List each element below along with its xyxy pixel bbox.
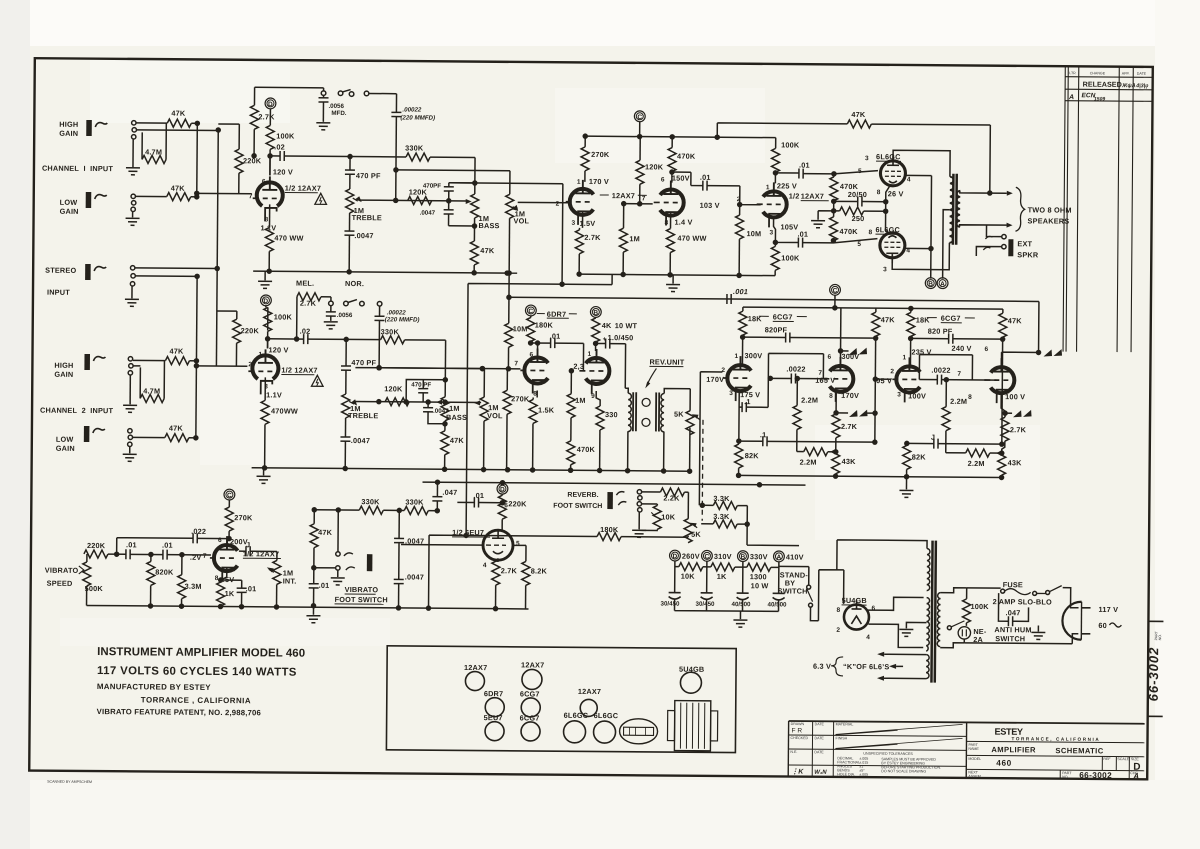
svg-text:6DR7: 6DR7: [547, 310, 567, 319]
capacitor 20/50: [834, 200, 858, 202]
dashed gang line: [701, 420, 704, 521]
svg-text:NAME: NAME: [968, 747, 979, 751]
svg-text:1.0/450: 1.0/450: [608, 333, 634, 342]
svg-text:410V: 410V: [786, 552, 804, 561]
svg-text:10 W: 10 W: [751, 581, 769, 590]
resistor 220K: [83, 553, 85, 555]
svg-text:.01: .01: [162, 541, 173, 550]
wire B+ bus: [585, 121, 776, 137]
svg-text:6CG7: 6CG7: [520, 713, 540, 722]
capacitor .01: [529, 341, 533, 345]
svg-text:2: 2: [737, 196, 741, 203]
resistor 47K: [165, 357, 189, 365]
svg-text:12AX7: 12AX7: [578, 687, 601, 696]
ground: [337, 570, 339, 577]
wire plate lower to OT: [892, 242, 949, 269]
resistor 1.5K cathode A: [533, 390, 537, 399]
switch contacts: [321, 91, 326, 96]
capacitor 470 PF treble: [345, 339, 347, 366]
ground: [131, 286, 133, 298]
svg-text:6: 6: [827, 354, 831, 361]
svg-text:470 WW: 470 WW: [274, 233, 303, 242]
svg-text:1: 1: [587, 351, 591, 358]
wire reverb coils: [625, 388, 691, 471]
jack plug: [607, 492, 613, 509]
svg-text:6: 6: [504, 502, 508, 509]
tube 6L6GC lower: [880, 233, 905, 264]
wire: [269, 109, 271, 125]
border fold tick lower right: [1148, 715, 1163, 717]
resistor 180K: [429, 535, 598, 609]
resistor 2.2M horizontal: [946, 452, 966, 454]
capacitor .047: [998, 593, 1008, 621]
wire secondary right: [940, 588, 966, 648]
svg-text:2.2K: 2.2K: [663, 494, 680, 503]
svg-text:7: 7: [203, 553, 207, 560]
svg-text:2: 2: [248, 361, 252, 368]
svg-text:.0022: .0022: [931, 366, 950, 375]
svg-text:1: 1: [766, 184, 770, 191]
svg-text:(220 MMFD): (220 MMFD): [385, 316, 420, 323]
resistor 470WW cathode: [269, 204, 271, 227]
svg-text:3.3K: 3.3K: [713, 494, 730, 503]
jack EXT SPKR: [976, 225, 1001, 256]
svg-text:2.2M: 2.2M: [950, 397, 967, 406]
svg-text:150V: 150V: [672, 174, 690, 183]
resistor 2.7K: [579, 211, 582, 230]
svg-text:HOLE DIA.: HOLE DIA.: [837, 772, 855, 776]
svg-text:180K: 180K: [535, 320, 554, 329]
phase flag upper 1: [841, 350, 849, 352]
svg-text:CHANNEL I INPUT: CHANNEL I INPUT: [42, 164, 114, 174]
svg-text:1: 1: [902, 354, 906, 361]
svg-text:BASS: BASS: [478, 221, 499, 230]
wire bottom bus PI: [739, 475, 1002, 477]
svg-text:.1: .1: [744, 397, 751, 406]
resistor 10M: [739, 205, 741, 215]
svg-text:225 V: 225 V: [777, 181, 797, 190]
svg-text:1.4 V: 1.4 V: [675, 218, 693, 227]
svg-text:470K: 470K: [577, 445, 596, 454]
resistor 47K: [313, 510, 315, 524]
resistor 47K: [875, 308, 877, 312]
svg-text:1509: 1509: [1094, 96, 1105, 102]
svg-text:220K: 220K: [87, 541, 106, 550]
svg-text:2.7K: 2.7K: [300, 299, 317, 308]
wire vol wiper to 2nd stage: [518, 201, 570, 203]
svg-text:FOOT SWITCH: FOOT SWITCH: [335, 595, 388, 604]
svg-text:EXT: EXT: [1017, 239, 1032, 248]
svg-text:SCANNED BY AMPSCHEM: SCANNED BY AMPSCHEM: [47, 780, 92, 784]
capacitor .01 lower coupling: [773, 218, 798, 242]
svg-text:10 WT: 10 WT: [615, 321, 638, 330]
svg-text:120 V: 120 V: [269, 345, 289, 354]
svg-text:470 PF: 470 PF: [411, 382, 431, 389]
svg-text:UNSPECIFIED TOLERANCES: UNSPECIFIED TOLERANCES: [863, 752, 913, 756]
phase flag lower 2: [1005, 412, 1012, 414]
svg-text:BASS: BASS: [446, 413, 467, 422]
capacitor .1 upper: [739, 392, 742, 441]
resistor 2.7K: [253, 87, 256, 155]
svg-text:5K: 5K: [674, 410, 684, 419]
wire speaker bottom: [960, 225, 1007, 227]
capacitor .01: [313, 568, 315, 584]
svg-text:7: 7: [642, 195, 646, 202]
svg-text:SCHEMATIC: SCHEMATIC: [1055, 746, 1103, 755]
svg-text:5U4GB: 5U4GB: [842, 596, 867, 605]
svg-text:8.2K: 8.2K: [531, 566, 548, 575]
capacitor .0047 lower: [394, 579, 404, 583]
wire grid V3: [740, 186, 761, 205]
svg-text:100K: 100K: [781, 140, 800, 149]
resistor 820K: [150, 554, 152, 561]
node C: [830, 284, 841, 295]
resistor 4.7M: [140, 360, 164, 398]
node C: [525, 305, 536, 316]
svg-text:6: 6: [661, 176, 665, 183]
svg-text:240 V: 240 V: [952, 344, 972, 353]
svg-text:.0047: .0047: [354, 231, 373, 240]
resistor 330K: [344, 337, 348, 341]
svg-text:3: 3: [729, 390, 733, 397]
svg-text:2,3: 2,3: [573, 362, 584, 371]
svg-text:47K: 47K: [1008, 316, 1023, 325]
resistor 82K: [906, 443, 908, 445]
svg-text:LOW: LOW: [56, 435, 74, 444]
svg-text:APP.: APP.: [1122, 72, 1130, 76]
resistor 120K: [385, 398, 409, 406]
svg-text:2.7K: 2.7K: [584, 233, 601, 242]
svg-text:220K: 220K: [508, 499, 527, 508]
svg-text:SPEAKERS: SPEAKERS: [1028, 216, 1070, 225]
svg-text:.047: .047: [1005, 608, 1020, 617]
triode V1 1/2 12AX7: [253, 176, 283, 221]
revision table: [1063, 66, 1153, 352]
svg-text:47K: 47K: [169, 424, 184, 433]
potentiometer 5K: [686, 411, 694, 435]
capacitor .0047 bass: [427, 402, 429, 408]
wire bottom bus vibrato: [87, 605, 529, 608]
svg-text:TREBLE: TREBLE: [352, 213, 382, 222]
speaker brace: [1015, 187, 1024, 231]
jack stereo input: [85, 264, 106, 280]
potentiometer 500K: [86, 554, 88, 562]
node D: [265, 98, 276, 109]
svg-text:INPUT: INPUT: [47, 288, 70, 297]
wire node A to OT tap: [943, 210, 950, 279]
svg-text:9: 9: [591, 393, 595, 400]
capacitor .0047 bass: [448, 201, 450, 210]
svg-text:SWITCH: SWITCH: [778, 586, 808, 595]
triode 6CG7 2A: [892, 357, 920, 402]
svg-text:470 WW: 470 WW: [677, 234, 706, 243]
ground: [132, 139, 134, 167]
svg-text:VOL: VOL: [514, 216, 530, 225]
svg-text:270K: 270K: [591, 150, 610, 159]
svg-text:170 V: 170 V: [589, 177, 609, 186]
wire cap bottoms: [675, 599, 779, 612]
wire grid B: [624, 203, 653, 205]
wire to switch: [1046, 591, 1050, 595]
svg-text:6: 6: [262, 178, 266, 185]
ground: [129, 375, 131, 404]
capacitor 820PF: [743, 336, 786, 338]
wire junction vertical ch2: [196, 276, 197, 437]
svg-text:GAIN: GAIN: [56, 444, 75, 453]
wire treble tap: [355, 400, 481, 403]
svg-text:117 V: 117 V: [1098, 605, 1118, 614]
svg-text:B: B: [740, 554, 745, 561]
svg-text:3.3K: 3.3K: [713, 512, 730, 521]
node D: [669, 550, 680, 561]
resistor 180K: [527, 317, 535, 341]
resistor 2.2M: [945, 380, 947, 407]
triode 1/2 12AX7 vibrato: [210, 536, 238, 581]
capacitor 40/500 second: [773, 593, 785, 600]
svg-text:.00022: .00022: [402, 106, 422, 113]
svg-text:330K: 330K: [405, 497, 424, 506]
wire: [136, 123, 218, 131]
resistor 1300 10W: [743, 566, 747, 568]
resistor 470K lower bias: [833, 211, 835, 217]
svg-text:820PF: 820PF: [765, 325, 788, 334]
svg-text:103 V: 103 V: [700, 201, 720, 210]
svg-text:MATERIAL: MATERIAL: [836, 722, 854, 726]
wire treble tap: [360, 199, 468, 202]
resistor 220K: [235, 311, 237, 366]
svg-text:10M: 10M: [746, 229, 761, 238]
svg-text:MANUFACTURED BY ESTEY: MANUFACTURED BY ESTEY: [97, 682, 212, 692]
ground PI: [905, 477, 907, 490]
svg-text:330K: 330K: [361, 497, 380, 506]
node B: [737, 551, 748, 562]
svg-text:.02: .02: [274, 142, 285, 151]
svg-text:TREBLE: TREBLE: [348, 411, 378, 420]
wire plate: [267, 339, 269, 349]
svg-text:ASSEM.: ASSEM.: [968, 774, 982, 778]
jack ch1 high contacts: [132, 121, 136, 125]
potentiometer 1M BASS: [444, 340, 446, 397]
svg-text:.2V: .2V: [190, 553, 202, 562]
output transformer: [949, 174, 960, 245]
svg-text:LTR: LTR: [1069, 71, 1076, 75]
svg-text:12AX7: 12AX7: [464, 663, 487, 672]
node D: [497, 483, 508, 494]
wire plate upper to OT: [893, 150, 950, 176]
svg-text:MEL.: MEL.: [296, 279, 314, 288]
svg-text:100K: 100K: [274, 312, 293, 321]
capacitor .01 coupling: [672, 172, 703, 186]
capacitor .0047: [340, 437, 350, 441]
svg-text:100V: 100V: [908, 391, 926, 400]
wire vol top: [396, 170, 510, 194]
svg-text:.01: .01: [319, 581, 330, 590]
svg-text:REF: REF: [1103, 757, 1111, 761]
resistor 1M: [570, 371, 572, 394]
svg-text:6CG7: 6CG7: [773, 312, 793, 321]
svg-text:8: 8: [868, 229, 872, 236]
svg-text:3: 3: [865, 155, 869, 162]
svg-text:60: 60: [1098, 621, 1107, 630]
svg-text:8: 8: [877, 189, 881, 196]
svg-text:VIBRATO FEATURE PATENT, NO.: VIBRATO FEATURE PATENT, NO. 2,988,706: [97, 707, 261, 717]
svg-text:40/500: 40/500: [768, 601, 788, 608]
svg-text:D: D: [500, 486, 505, 493]
svg-text:500K: 500K: [85, 584, 104, 593]
border fold tick upper right: [1148, 620, 1163, 622]
capacitor 820 PF: [911, 337, 949, 339]
svg-text:8: 8: [265, 216, 269, 223]
svg-text:SIZE: SIZE: [1131, 757, 1140, 761]
svg-text:7: 7: [514, 360, 518, 367]
svg-text:GAIN: GAIN: [60, 207, 79, 216]
svg-text:.0022: .0022: [786, 364, 805, 373]
svg-text:6: 6: [871, 605, 875, 612]
svg-text:30/450: 30/450: [661, 600, 681, 607]
svg-text:FOOT SWITCH: FOOT SWITCH: [553, 503, 602, 510]
svg-text:INSTRUMENT AMPLIFIER MODEL: INSTRUMENT AMPLIFIER MODEL 460: [97, 646, 305, 660]
svg-text:C: C: [227, 492, 232, 499]
svg-text:8: 8: [968, 394, 972, 401]
wire grid 2A: [875, 378, 891, 380]
wire: [266, 306, 268, 331]
capacitor .01 upper coupling: [775, 172, 798, 174]
svg-text:FUSE: FUSE: [1003, 580, 1023, 589]
resistor 220K: [501, 493, 503, 496]
switch contacts: [329, 301, 334, 306]
svg-text:4.7M: 4.7M: [143, 386, 160, 395]
node A: [937, 278, 948, 289]
svg-text:330K: 330K: [381, 327, 400, 336]
svg-text:330V: 330V: [750, 552, 768, 561]
tube 1/2 6EU7: [483, 530, 513, 560]
standby switch: [779, 566, 809, 584]
power transformer: [926, 541, 941, 683]
resistor 330K second: [404, 506, 428, 514]
svg-text:66-3002: 66-3002: [1146, 647, 1161, 702]
svg-text:.01: .01: [126, 540, 137, 549]
wire: [133, 360, 197, 366]
svg-text:43K: 43K: [842, 457, 857, 466]
resistor 1K: [221, 567, 227, 582]
svg-text:100K: 100K: [971, 602, 990, 611]
svg-text:TWO 8 OHM: TWO 8 OHM: [1028, 205, 1072, 214]
capacitor .02: [270, 155, 280, 157]
svg-text:2.2M: 2.2M: [968, 459, 985, 468]
svg-text:±.005: ±.005: [859, 773, 868, 777]
wire grid A: [355, 368, 520, 369]
svg-text:6DR7: 6DR7: [484, 689, 504, 698]
resistor 3.3K upper: [702, 504, 713, 506]
svg-text:26 V: 26 V: [888, 189, 904, 198]
svg-text:D: D: [263, 298, 268, 305]
svg-text:47K: 47K: [480, 246, 495, 255]
resistor 2.7K: [496, 558, 498, 561]
potentiometer 5K lower: [687, 492, 689, 518]
wire: [218, 124, 270, 175]
warning triangle: [315, 193, 327, 204]
svg-text:6: 6: [529, 351, 533, 358]
wire ground bus: [253, 271, 517, 273]
svg-text:J: J: [246, 540, 250, 549]
reverb unit transducers: [628, 392, 664, 432]
resistor 270K: [225, 507, 233, 531]
svg-text:470WW: 470WW: [271, 406, 298, 415]
resistor 47K: [167, 119, 191, 127]
svg-text:1K: 1K: [717, 572, 727, 581]
capacitor 40/500: [737, 593, 749, 600]
svg-text:4|3|ʋ̥: 4|3|ʋ̥: [1135, 83, 1149, 89]
svg-text:2: 2: [836, 627, 840, 634]
wire primary top: [837, 540, 927, 571]
resistor 47K: [441, 431, 449, 455]
capacitor .0047 rail: [398, 510, 400, 538]
capacitor J coupling: [907, 442, 934, 444]
resistor 2.7K cathode 1B: [835, 392, 837, 414]
svg-text:.01: .01: [550, 332, 561, 341]
capacitor .0047: [344, 231, 354, 235]
svg-text:A: A: [776, 554, 781, 561]
node D: [260, 295, 271, 306]
svg-text:⋮K: ⋮K: [791, 768, 804, 776]
resistor 470K: [671, 137, 673, 148]
svg-text:170V: 170V: [841, 391, 859, 400]
svg-text:STEREO: STEREO: [45, 266, 76, 275]
capacitor .0056 MFD: [323, 95, 325, 97]
svg-text:5EU7: 5EU7: [484, 713, 503, 722]
svg-text:470 PF: 470 PF: [351, 358, 376, 367]
svg-text:C: C: [704, 554, 709, 561]
ground: [132, 212, 134, 217]
capacitor .02: [268, 338, 304, 340]
svg-text:REVERB.: REVERB.: [567, 492, 598, 499]
wire HV center tap ground: [906, 622, 926, 628]
svg-text:B: B: [593, 310, 598, 317]
wire plate 2B: [1001, 352, 1040, 360]
svg-text:CHECKED: CHECKED: [790, 736, 808, 740]
svg-text:6L6GC: 6L6GC: [875, 225, 900, 234]
resistor 47K: [165, 434, 189, 442]
wire: [368, 93, 396, 112]
wire grid 1A: [699, 372, 722, 506]
svg-text:3: 3: [572, 220, 576, 227]
capacitor 1.0/450: [594, 341, 598, 345]
resistor 330K: [359, 506, 383, 514]
wire rectifier plates: [867, 597, 923, 647]
svg-text:GAIN: GAIN: [59, 129, 78, 138]
svg-text:HIGH: HIGH: [59, 120, 78, 129]
resistor 43K: [998, 451, 1006, 475]
node B: [590, 307, 601, 318]
capacitor .0022: [919, 379, 937, 381]
svg-text:4: 4: [907, 176, 911, 183]
svg-text:1300: 1300: [750, 572, 767, 581]
resistor 100K: [966, 588, 968, 599]
resistor 8.2K: [513, 545, 526, 561]
resistor 2.7K horizontal: [296, 297, 298, 339]
svg-text:F R: F R: [792, 728, 803, 735]
resistor 47K: [167, 193, 191, 201]
svg-text:460: 460: [996, 759, 1012, 768]
svg-text:470PF: 470PF: [423, 183, 442, 190]
svg-text:DRAWN: DRAWN: [791, 722, 805, 726]
svg-text:3: 3: [769, 229, 773, 236]
svg-text:1: 1: [577, 179, 581, 186]
svg-text:43K: 43K: [1008, 458, 1023, 467]
wire 330K rail: [314, 509, 437, 512]
jack ch2 high gain: [84, 354, 105, 370]
capacitor 470 PF treble: [349, 157, 351, 170]
